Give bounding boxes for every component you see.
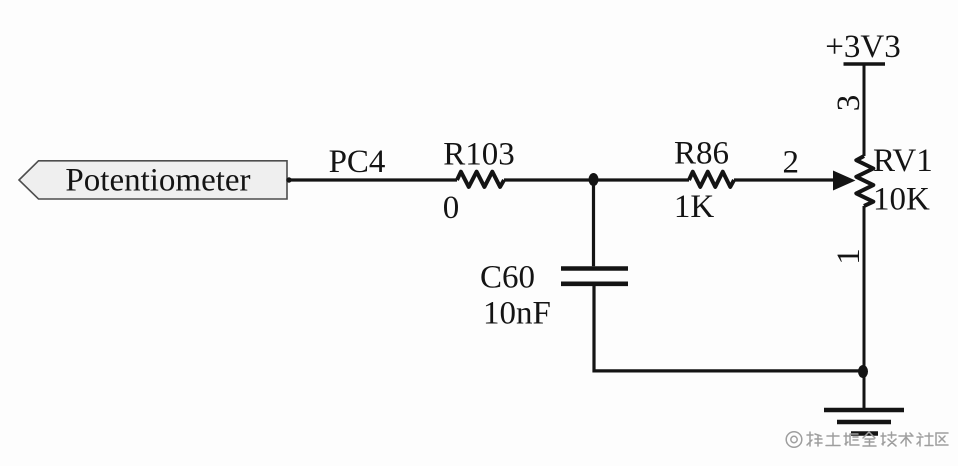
svg-text:1: 1 [831, 248, 867, 265]
svg-text:RV1: RV1 [873, 143, 933, 179]
svg-text:Potentiometer: Potentiometer [65, 163, 250, 199]
svg-text:C60: C60 [480, 260, 535, 296]
svg-text:1K: 1K [674, 189, 715, 225]
svg-text:PC4: PC4 [329, 144, 386, 180]
svg-text:10nF: 10nF [483, 295, 551, 331]
svg-text:10K: 10K [873, 182, 930, 218]
svg-text:0: 0 [443, 190, 460, 226]
svg-text:3: 3 [831, 95, 867, 112]
svg-text:+3V3: +3V3 [825, 29, 900, 65]
svg-text:R86: R86 [674, 135, 729, 171]
svg-text:R103: R103 [443, 136, 515, 172]
svg-text:2: 2 [782, 145, 799, 181]
